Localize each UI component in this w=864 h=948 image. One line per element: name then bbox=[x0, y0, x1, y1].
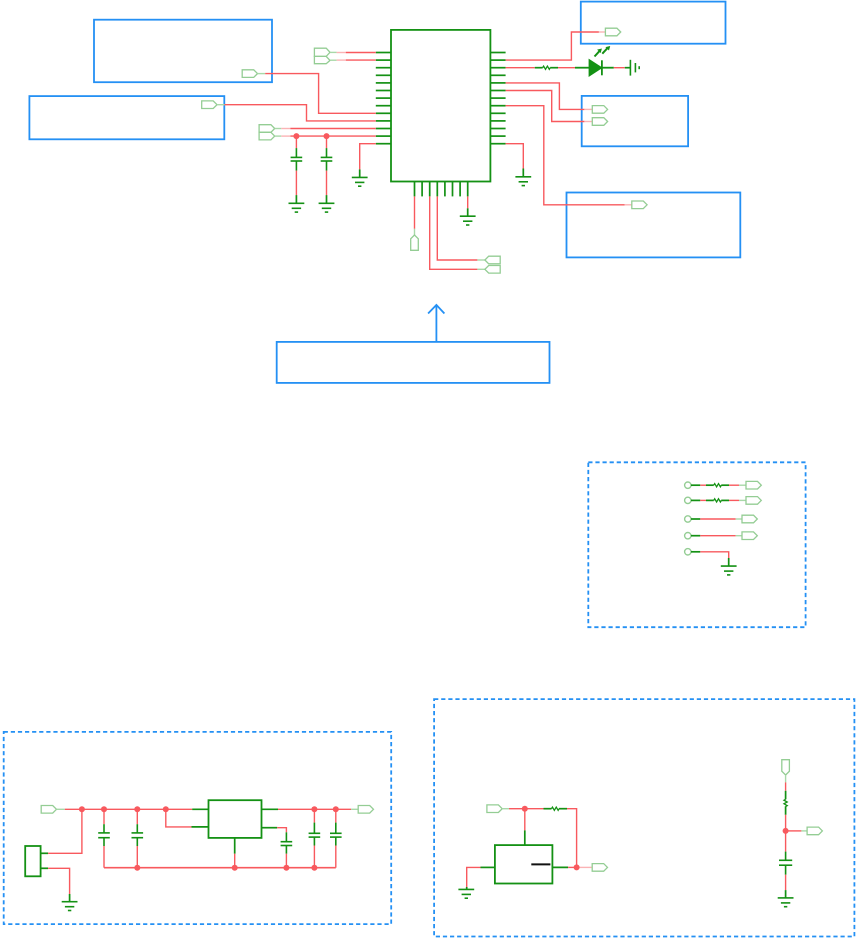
LED D1 bbox=[575, 46, 614, 75]
junction bbox=[134, 806, 140, 812]
net flag D3-out bbox=[592, 864, 607, 872]
wire lead bbox=[330, 59, 337, 61]
wire bbox=[625, 204, 632, 206]
wire bbox=[313, 809, 315, 822]
frame box lower-right bbox=[567, 193, 741, 258]
sensor U3 mark bbox=[531, 863, 550, 865]
net flag DF3-2 bbox=[485, 266, 500, 274]
junction bbox=[522, 806, 528, 812]
wire to pin11 bbox=[290, 128, 375, 130]
wire pin2 to flag bbox=[506, 32, 599, 60]
wire stem bbox=[326, 195, 328, 203]
wire rail VOUT bbox=[278, 808, 351, 810]
wire lead bbox=[258, 73, 266, 75]
ground bbox=[62, 902, 78, 911]
wire stem bbox=[728, 558, 730, 566]
wire stem bbox=[785, 890, 787, 898]
pin lead bbox=[691, 499, 700, 501]
connector pin bbox=[41, 867, 49, 869]
wire to ground bbox=[467, 867, 481, 887]
wire bbox=[335, 809, 337, 822]
ground bbox=[460, 216, 476, 225]
wire pin13 to ground bbox=[360, 144, 376, 170]
IC U1 right pins bbox=[490, 53, 505, 144]
wire bbox=[337, 59, 346, 61]
dashed section box bottom-right bbox=[434, 699, 854, 936]
junction bbox=[293, 133, 299, 139]
wire to pin12 bbox=[290, 135, 375, 137]
wire stem bbox=[295, 195, 297, 203]
dashed section box right-middle bbox=[588, 462, 805, 627]
capacitor C4 bbox=[132, 824, 144, 846]
wire pin6 to flag bbox=[506, 91, 585, 122]
wire lead bbox=[739, 499, 746, 501]
net flag VIN bbox=[41, 806, 56, 814]
wire pin13r to ground bbox=[506, 144, 524, 169]
net flag B4 bbox=[632, 201, 647, 209]
net flag pair DF2 bbox=[259, 125, 275, 140]
ground bbox=[458, 889, 474, 898]
regulator pin lead bbox=[262, 808, 279, 810]
pin circle P1 bbox=[685, 482, 691, 488]
wire lead bbox=[275, 135, 282, 137]
net flag D1-1 bbox=[746, 481, 761, 489]
net flag VOUT bbox=[358, 806, 373, 814]
wire bbox=[786, 830, 802, 832]
wire bbox=[524, 809, 526, 831]
capacitor C1 bbox=[291, 148, 303, 171]
resistor R5 bbox=[784, 791, 787, 815]
wire bbox=[700, 484, 706, 486]
wire lead bbox=[57, 808, 65, 810]
wire stub bbox=[625, 67, 631, 69]
wire lead bbox=[477, 268, 485, 270]
wire bbox=[346, 59, 376, 61]
arrow pointer bbox=[428, 305, 444, 342]
pin lead bbox=[691, 551, 700, 553]
pin circle P5 bbox=[685, 549, 691, 555]
junction bbox=[311, 865, 317, 871]
wire lead bbox=[502, 808, 509, 810]
wire bbox=[558, 67, 575, 69]
net flag divider-out bbox=[807, 827, 822, 835]
wire bbox=[567, 809, 577, 868]
net flag pair DF1 bbox=[314, 48, 330, 64]
wire bbox=[700, 518, 735, 520]
net flag F1 bbox=[242, 70, 257, 78]
wire lead bbox=[330, 51, 337, 53]
capacitor C7 bbox=[330, 823, 342, 846]
net flag top-right bbox=[605, 28, 620, 36]
IC U1 bottom pins bbox=[415, 182, 468, 197]
frame box top-right bbox=[581, 2, 726, 44]
regulator pin lead bbox=[262, 827, 278, 829]
wire bbox=[136, 809, 138, 824]
wire bbox=[700, 535, 735, 537]
wire F2 to pin10 bbox=[225, 105, 376, 121]
wire bbox=[568, 866, 577, 868]
IC U1 body bbox=[391, 30, 490, 182]
resistor R2 bbox=[706, 484, 729, 487]
frame box left bbox=[29, 96, 224, 139]
net flag bottom bbox=[411, 235, 419, 250]
junction bbox=[574, 864, 580, 870]
junction bbox=[101, 806, 107, 812]
wire lead bbox=[785, 775, 787, 782]
capacitor C6 bbox=[309, 823, 321, 846]
wire bbox=[785, 831, 787, 852]
wire stem bbox=[359, 169, 361, 177]
junction bbox=[283, 865, 289, 871]
wire lead bbox=[217, 104, 225, 106]
wire bbox=[785, 815, 787, 831]
wire lead bbox=[414, 229, 416, 235]
wire lead bbox=[736, 535, 742, 537]
wire J1 pin2 bbox=[48, 868, 70, 894]
wire rail VIN bbox=[65, 808, 192, 810]
voltage regulator U2 bbox=[209, 800, 262, 838]
junction bbox=[324, 133, 330, 139]
wire bbox=[326, 136, 328, 148]
resistor R3 bbox=[706, 499, 729, 502]
net flag DF3-1 bbox=[485, 256, 500, 264]
junction bbox=[311, 806, 317, 812]
wire bbox=[295, 136, 297, 148]
junction bbox=[163, 806, 169, 812]
net flag B3-1 bbox=[592, 106, 607, 114]
frame box top-left bbox=[94, 20, 272, 82]
wire bbox=[277, 828, 286, 833]
wire bbox=[584, 121, 592, 123]
wire pin5 to flag bbox=[506, 83, 585, 110]
ground bbox=[778, 898, 794, 907]
sensor pin stem bbox=[524, 830, 526, 845]
wire bbox=[785, 875, 787, 890]
wire to ground bbox=[700, 552, 728, 558]
junction bbox=[333, 806, 339, 812]
wire pin b3 bbox=[430, 196, 478, 269]
IC U1 left pins bbox=[376, 53, 391, 144]
frame box bottom-center bbox=[277, 342, 550, 383]
wire bbox=[337, 52, 346, 54]
wire bbox=[729, 484, 739, 486]
net flag D1-4 bbox=[742, 532, 757, 540]
pin circle P4 bbox=[685, 533, 691, 539]
wire bbox=[234, 854, 236, 868]
regulator pin lead bbox=[192, 826, 209, 828]
wire lead bbox=[739, 484, 746, 486]
frame box right bbox=[582, 96, 688, 146]
wire lead bbox=[477, 259, 485, 261]
connector J1 bbox=[25, 846, 40, 876]
resistor R4 bbox=[544, 807, 568, 810]
sensor pin lead bbox=[481, 866, 495, 868]
wire lead bbox=[351, 808, 358, 810]
wire bbox=[525, 808, 544, 810]
pin circle P3 bbox=[685, 516, 691, 522]
regulator ground stem bbox=[234, 838, 236, 854]
wire bbox=[313, 846, 315, 868]
resistor R1 bbox=[535, 66, 558, 69]
sensor pin lead bbox=[552, 866, 568, 868]
dashed section box bottom-left bbox=[4, 732, 392, 924]
net flag D1-2 bbox=[746, 497, 761, 505]
ground bbox=[319, 203, 335, 212]
wire bbox=[584, 108, 592, 110]
wire bbox=[281, 128, 290, 130]
wire bbox=[103, 809, 105, 824]
capacitor C2 bbox=[321, 148, 333, 171]
wire bbox=[136, 846, 138, 868]
wire pin b4 bbox=[437, 196, 477, 260]
wire stem bbox=[522, 169, 524, 177]
wire lead bbox=[801, 830, 807, 832]
junction bbox=[134, 865, 140, 871]
wire bbox=[103, 846, 105, 868]
wire to EN pin bbox=[166, 809, 192, 827]
wire J1 pin1 bbox=[48, 809, 82, 853]
pin lead bbox=[691, 518, 700, 520]
capacitor C8 bbox=[779, 852, 792, 875]
wire bbox=[335, 846, 337, 868]
capacitor C5 bbox=[281, 832, 293, 853]
net flag F2 bbox=[202, 101, 217, 109]
wire bbox=[346, 52, 376, 54]
wire bbox=[295, 171, 297, 196]
wire bbox=[599, 31, 606, 33]
wire bbox=[614, 67, 625, 69]
junction bbox=[79, 806, 85, 812]
wire bbox=[285, 854, 287, 868]
pin lead bbox=[691, 484, 700, 486]
wire bbox=[729, 499, 739, 501]
net flag D3-in bbox=[487, 805, 502, 813]
wire stem bbox=[467, 208, 469, 216]
wire bbox=[785, 782, 787, 790]
junction bbox=[783, 828, 789, 834]
wire pin b1 bbox=[414, 196, 416, 228]
wire bbox=[506, 67, 535, 69]
sensor U3 bbox=[495, 845, 553, 883]
wire stem bbox=[466, 887, 468, 889]
junction bbox=[232, 865, 238, 871]
wire bbox=[281, 135, 290, 137]
ground bbox=[515, 177, 531, 186]
connector pin bbox=[41, 852, 49, 854]
wire bbox=[509, 808, 525, 810]
wire pin8 to flag bbox=[506, 106, 625, 205]
wire stem bbox=[69, 894, 71, 902]
wire lead bbox=[736, 518, 742, 520]
capacitor C3 bbox=[98, 824, 110, 846]
net flag divider-top bbox=[782, 760, 790, 775]
pin circle P2 bbox=[685, 497, 691, 503]
ground bbox=[721, 566, 737, 575]
wire lead bbox=[275, 128, 282, 130]
wire pin b8 bbox=[467, 196, 469, 208]
ground bbox=[289, 203, 305, 212]
wire bbox=[326, 171, 328, 196]
net flag B3-2 bbox=[592, 118, 607, 126]
bottom rail bbox=[104, 867, 336, 869]
wire F1 to pin9 bbox=[265, 74, 376, 114]
wire bbox=[700, 499, 706, 501]
pin lead bbox=[691, 535, 700, 537]
net flag D1-3 bbox=[742, 515, 757, 523]
ground bbox=[352, 177, 368, 186]
regulator pin lead bbox=[192, 808, 208, 810]
ground rotated bbox=[630, 60, 639, 76]
wire bbox=[577, 866, 592, 868]
